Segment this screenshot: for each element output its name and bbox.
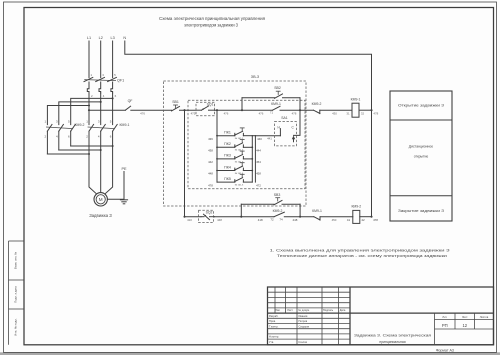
crossover wire KM9-2 pole1 to motor line1 <box>47 153 89 155</box>
svg-text:ПК2: ПК2 <box>224 142 231 146</box>
svg-text:ПК4: ПК4 <box>224 165 231 169</box>
svg-text:444: 444 <box>256 149 261 153</box>
circuit breaker QF1 pole 3 <box>108 77 117 93</box>
contact pin numbers row <box>45 120 112 139</box>
svg-text:L2: L2 <box>99 36 103 40</box>
svg-text:Взам. инв. №: Взам. инв. № <box>14 252 18 269</box>
svg-text:Задвижка З. Схема электрическа: Задвижка З. Схема электрическая <box>354 334 431 338</box>
crossover wire L3 to KM9-2 pole3 <box>71 98 113 124</box>
PK wire numbers left <box>208 137 213 187</box>
svg-text:КМ9-2: КМ9-2 <box>312 102 322 106</box>
wire L2 breaker to contact <box>100 93 102 125</box>
dashed box drive unit inner <box>188 100 305 189</box>
title block left rows <box>268 292 351 339</box>
svg-text:КМ9-1: КМ9-1 <box>312 209 322 213</box>
junction motor line1 <box>88 153 90 155</box>
svg-text:72: 72 <box>270 218 274 222</box>
svg-text:1. Схема выполнена для управле: 1. Схема выполнена для управления электр… <box>270 247 451 252</box>
svg-text:КМ9-1: КМ9-1 <box>119 123 129 127</box>
svg-text:441: 441 <box>267 137 272 141</box>
wire SB1 to bus <box>180 109 197 111</box>
wire SA1 riser <box>294 98 301 136</box>
circuit breaker QF1 pole 1 <box>84 77 93 93</box>
signature row labels <box>269 314 279 344</box>
cam switch PK2 <box>217 140 252 152</box>
svg-text:КМ9-2: КМ9-2 <box>74 123 84 127</box>
svg-text:478: 478 <box>373 218 378 222</box>
wire motor line2 <box>100 131 102 192</box>
scan shadow bottom edge <box>0 352 500 355</box>
svg-text:КМ9-1: КМ9-1 <box>351 98 361 102</box>
svg-text:31: 31 <box>346 111 350 115</box>
svg-text:М: М <box>99 197 103 202</box>
contact KM9-2 interlock NC <box>314 110 353 113</box>
svg-text:475: 475 <box>191 111 196 115</box>
junction L3 crossover <box>112 97 114 99</box>
junction PK bus <box>216 109 218 111</box>
wire bus to SQ2 <box>185 216 202 218</box>
svg-text:L1: L1 <box>87 36 91 40</box>
svg-text:476: 476 <box>224 111 229 115</box>
right annotation panel <box>390 91 452 221</box>
junction L2 crossover <box>100 101 102 103</box>
svg-text:Схема электрическая принципиал: Схема электрическая принципиальная управ… <box>159 16 265 21</box>
svg-text:PE: PE <box>121 167 127 171</box>
svg-text:Лист: Лист <box>462 315 468 319</box>
svg-text:ПК1: ПК1 <box>224 131 231 135</box>
svg-text:SA1: SA1 <box>281 116 288 120</box>
cam switch PK5 <box>217 174 252 186</box>
liter cells verticals <box>435 313 494 345</box>
wire N bus <box>125 41 372 217</box>
wire KM9-2 pole3 down <box>70 131 72 146</box>
svg-text:Листов: Листов <box>480 315 489 319</box>
limit switch SQ2 <box>201 214 215 220</box>
wire SB2 branch left riser <box>241 98 243 111</box>
svg-text:Лист: Лист <box>287 308 293 312</box>
bottom row left junction <box>183 216 185 218</box>
PK bus vertical <box>216 110 218 182</box>
limit switch SQ1 dashed box <box>196 102 215 116</box>
junction motor line2 <box>100 149 102 151</box>
svg-text:Иванов: Иванов <box>299 314 309 318</box>
junction SB3 branch right <box>299 216 301 218</box>
bottom row numbers <box>258 218 379 223</box>
contact KM9-1 interlock NC <box>314 217 353 220</box>
svg-text:принципиальная: принципиальная <box>379 340 405 344</box>
contactor KM9-2 pole 2 <box>59 124 64 131</box>
title block left column verticals <box>275 287 339 345</box>
svg-text:L3: L3 <box>110 36 114 40</box>
svg-text:SB2: SB2 <box>274 86 281 90</box>
svg-text:электроприводом задвижки З: электроприводом задвижки З <box>184 22 238 27</box>
svg-text:42: 42 <box>361 218 365 222</box>
wire motor line1 <box>89 131 96 193</box>
svg-text:КМ9-2: КМ9-2 <box>351 205 361 209</box>
wire SB3 branch left riser <box>240 204 242 217</box>
wire SQ2 to KM9-2 contact <box>215 216 275 218</box>
PK right bus <box>251 136 253 182</box>
wire SQ1 to KM9-1 contact <box>215 109 273 111</box>
svg-text:Пров.: Пров. <box>269 319 276 323</box>
svg-text:478: 478 <box>208 183 213 187</box>
wire L1 breaker to contact <box>88 93 90 125</box>
QF1 linkage bar <box>84 80 116 81</box>
svg-text:410: 410 <box>187 218 192 222</box>
KM9-2 linkage bar <box>46 127 73 129</box>
contact KM9-2 self-hold <box>274 212 284 217</box>
svg-text:450: 450 <box>332 218 337 222</box>
svg-text:Лит.: Лит. <box>442 315 447 319</box>
contactor KM9-2 pole 1 <box>47 124 52 131</box>
pushbutton SB1 <box>172 105 180 111</box>
limit switch SQ2 dashed box <box>198 210 213 222</box>
wire SB3 branch right riser <box>299 204 301 217</box>
svg-text:Задвижка З: Задвижка З <box>89 213 112 218</box>
contactor KM9-1 pole 1 <box>89 124 94 131</box>
svg-text:454: 454 <box>256 160 261 164</box>
PK wire numbers right <box>256 137 262 187</box>
svg-text:458: 458 <box>256 172 261 176</box>
svg-text:Козлов: Козлов <box>299 340 308 344</box>
KM9-1 linkage bar <box>88 127 115 129</box>
header row texts <box>275 308 346 312</box>
svg-text:Открытие задвижки З: Открытие задвижки З <box>398 104 444 108</box>
wire motor line3 <box>105 131 112 193</box>
contactor KM9-1 pole 3 <box>113 124 118 131</box>
svg-text:Технические данные аппаратов -: Технические данные аппаратов - см. схему… <box>277 253 447 258</box>
svg-text:Дата: Дата <box>340 308 346 312</box>
svg-text:Инв. № подл.: Инв. № подл. <box>14 318 18 336</box>
crossover wire L1 to KM9-2 pole1 <box>47 106 89 125</box>
svg-text:Закрытие задвижки З: Закрытие задвижки З <box>398 209 444 213</box>
svg-text:472: 472 <box>256 183 261 187</box>
cam switch PK1 <box>217 128 252 140</box>
wire SB3 branch <box>241 203 274 205</box>
svg-text:Изм.: Изм. <box>275 308 281 312</box>
wire control tap to QF <box>89 109 125 111</box>
svg-text:SQ2: SQ2 <box>206 211 213 215</box>
svg-text:418: 418 <box>258 218 263 222</box>
ground symbol <box>120 200 127 204</box>
crossover wire KM9-2 pole2 to motor line2 <box>59 149 101 151</box>
wire KM9-2 pole1 down <box>46 131 48 154</box>
wire contact to node <box>280 109 314 111</box>
junction left bus top <box>183 109 185 111</box>
contactor KM9-1 pole 2 <box>101 124 106 131</box>
selector SA1 dashed box <box>275 122 297 146</box>
pushbutton SB2 <box>275 91 301 98</box>
contactor KM9-2 pole 3 <box>71 124 76 131</box>
wire QF to SB1 <box>131 109 172 111</box>
svg-text:478: 478 <box>373 111 378 115</box>
title block outer <box>268 287 494 345</box>
junction SB2 branch right / SA1 riser <box>299 109 301 111</box>
title block main divider <box>349 287 351 345</box>
svg-text:430: 430 <box>332 111 337 115</box>
wire KM9-2 pole2 down <box>58 131 60 150</box>
switch QF <box>125 106 130 110</box>
svg-text:N: N <box>123 36 126 40</box>
crossover wire L2 to KM9-2 pole2 <box>59 102 101 125</box>
pushbutton SB3 <box>274 198 300 205</box>
circuit breaker QF1 pole 2 <box>96 77 105 93</box>
cam switch PK3 <box>217 151 252 163</box>
svg-text:Разраб.: Разраб. <box>269 314 279 318</box>
wire left bus vertical <box>184 110 186 217</box>
junction SB3 branch left <box>240 216 242 218</box>
coil KM9-1 <box>352 103 359 117</box>
SA1 right element C with arrow <box>291 125 295 141</box>
wire SB2 branch <box>242 97 275 99</box>
svg-text:74: 74 <box>279 218 283 222</box>
svg-text:Подпись: Подпись <box>323 308 334 312</box>
junction motor line3 <box>112 145 114 147</box>
contact KM9-1 self-hold <box>273 106 281 110</box>
coil KM9-2 <box>353 210 360 223</box>
svg-text:71: 71 <box>270 111 274 115</box>
limit switch SQ1 <box>197 106 215 110</box>
cam switch PK4 <box>217 163 252 175</box>
svg-text:открытие: открытие <box>414 155 429 159</box>
svg-text:32: 32 <box>361 111 365 115</box>
svg-text:Т.контр.: Т.контр. <box>269 324 279 328</box>
svg-text:Подп. и дата: Подп. и дата <box>14 286 18 303</box>
motor M <box>94 193 107 206</box>
svg-text:ЗВ-З: ЗВ-З <box>251 75 260 79</box>
junction L1 crossover <box>88 104 90 106</box>
svg-text:476: 476 <box>140 112 145 116</box>
junction N bus bottom row <box>370 216 372 218</box>
svg-text:442: 442 <box>208 160 213 164</box>
svg-text:РП: РП <box>442 323 448 328</box>
svg-text:448: 448 <box>208 172 213 176</box>
signature name smudges <box>299 314 310 344</box>
wire coil KM9-2 to N bus <box>360 216 372 218</box>
svg-text:Дистанционное: Дистанционное <box>409 145 434 149</box>
wire L1 drop to breaker <box>88 41 90 78</box>
svg-text:Н.контр.: Н.контр. <box>269 335 279 339</box>
svg-text:Утв.: Утв. <box>269 340 274 344</box>
junction SB2 branch left <box>241 109 243 111</box>
svg-text:ПК3: ПК3 <box>224 154 231 158</box>
SA1 left element H <box>277 125 280 135</box>
svg-text:448: 448 <box>217 218 222 222</box>
svg-text:438: 438 <box>208 149 213 153</box>
junction N bus top row <box>370 109 372 111</box>
svg-text:SQ1: SQ1 <box>207 103 214 107</box>
wire coil to N bus <box>359 109 372 111</box>
PK right bus second <box>252 136 255 182</box>
svg-text:ПК5: ПК5 <box>224 177 231 181</box>
svg-text:478: 478 <box>292 111 297 115</box>
wire L2 drop to breaker <box>100 41 102 78</box>
svg-text:Формат А3: Формат А3 <box>436 348 454 352</box>
svg-text:Сидоров: Сидоров <box>299 324 310 328</box>
PE wire <box>107 172 124 200</box>
wire L3 drop to breaker <box>112 41 114 78</box>
title block header divider <box>268 312 494 314</box>
left margin stamp column <box>9 241 25 345</box>
control tap junction on L1 <box>88 109 90 111</box>
crossover wire KM9-2 pole3 to motor line3 <box>71 145 113 147</box>
svg-text:12: 12 <box>462 323 467 328</box>
svg-text:QF: QF <box>128 99 133 103</box>
wire PK1 row to SA1 <box>255 135 280 137</box>
dashed box ZV-3 outer <box>164 81 307 206</box>
PK bus junctions <box>216 135 253 172</box>
svg-text:41: 41 <box>347 218 351 222</box>
svg-text:№ докум.: № докум. <box>298 309 310 312</box>
wire contact to node bottom <box>284 216 314 218</box>
svg-text:436: 436 <box>208 137 213 141</box>
svg-text:SB3: SB3 <box>274 193 281 197</box>
svg-text:КМ9-2: КМ9-2 <box>273 209 283 213</box>
svg-text:QF1: QF1 <box>117 78 124 82</box>
svg-text:448: 448 <box>292 218 297 222</box>
svg-text:440: 440 <box>257 137 262 141</box>
svg-text:№ 101-5: № 101-5 <box>235 184 244 187</box>
svg-text:Петров: Петров <box>299 319 308 323</box>
wire L3 breaker to contact <box>112 93 114 125</box>
svg-text:КМ9-1: КМ9-1 <box>271 102 281 106</box>
svg-text:476: 476 <box>259 111 264 115</box>
svg-text:SB1: SB1 <box>172 100 179 104</box>
liter header texts <box>442 315 488 319</box>
